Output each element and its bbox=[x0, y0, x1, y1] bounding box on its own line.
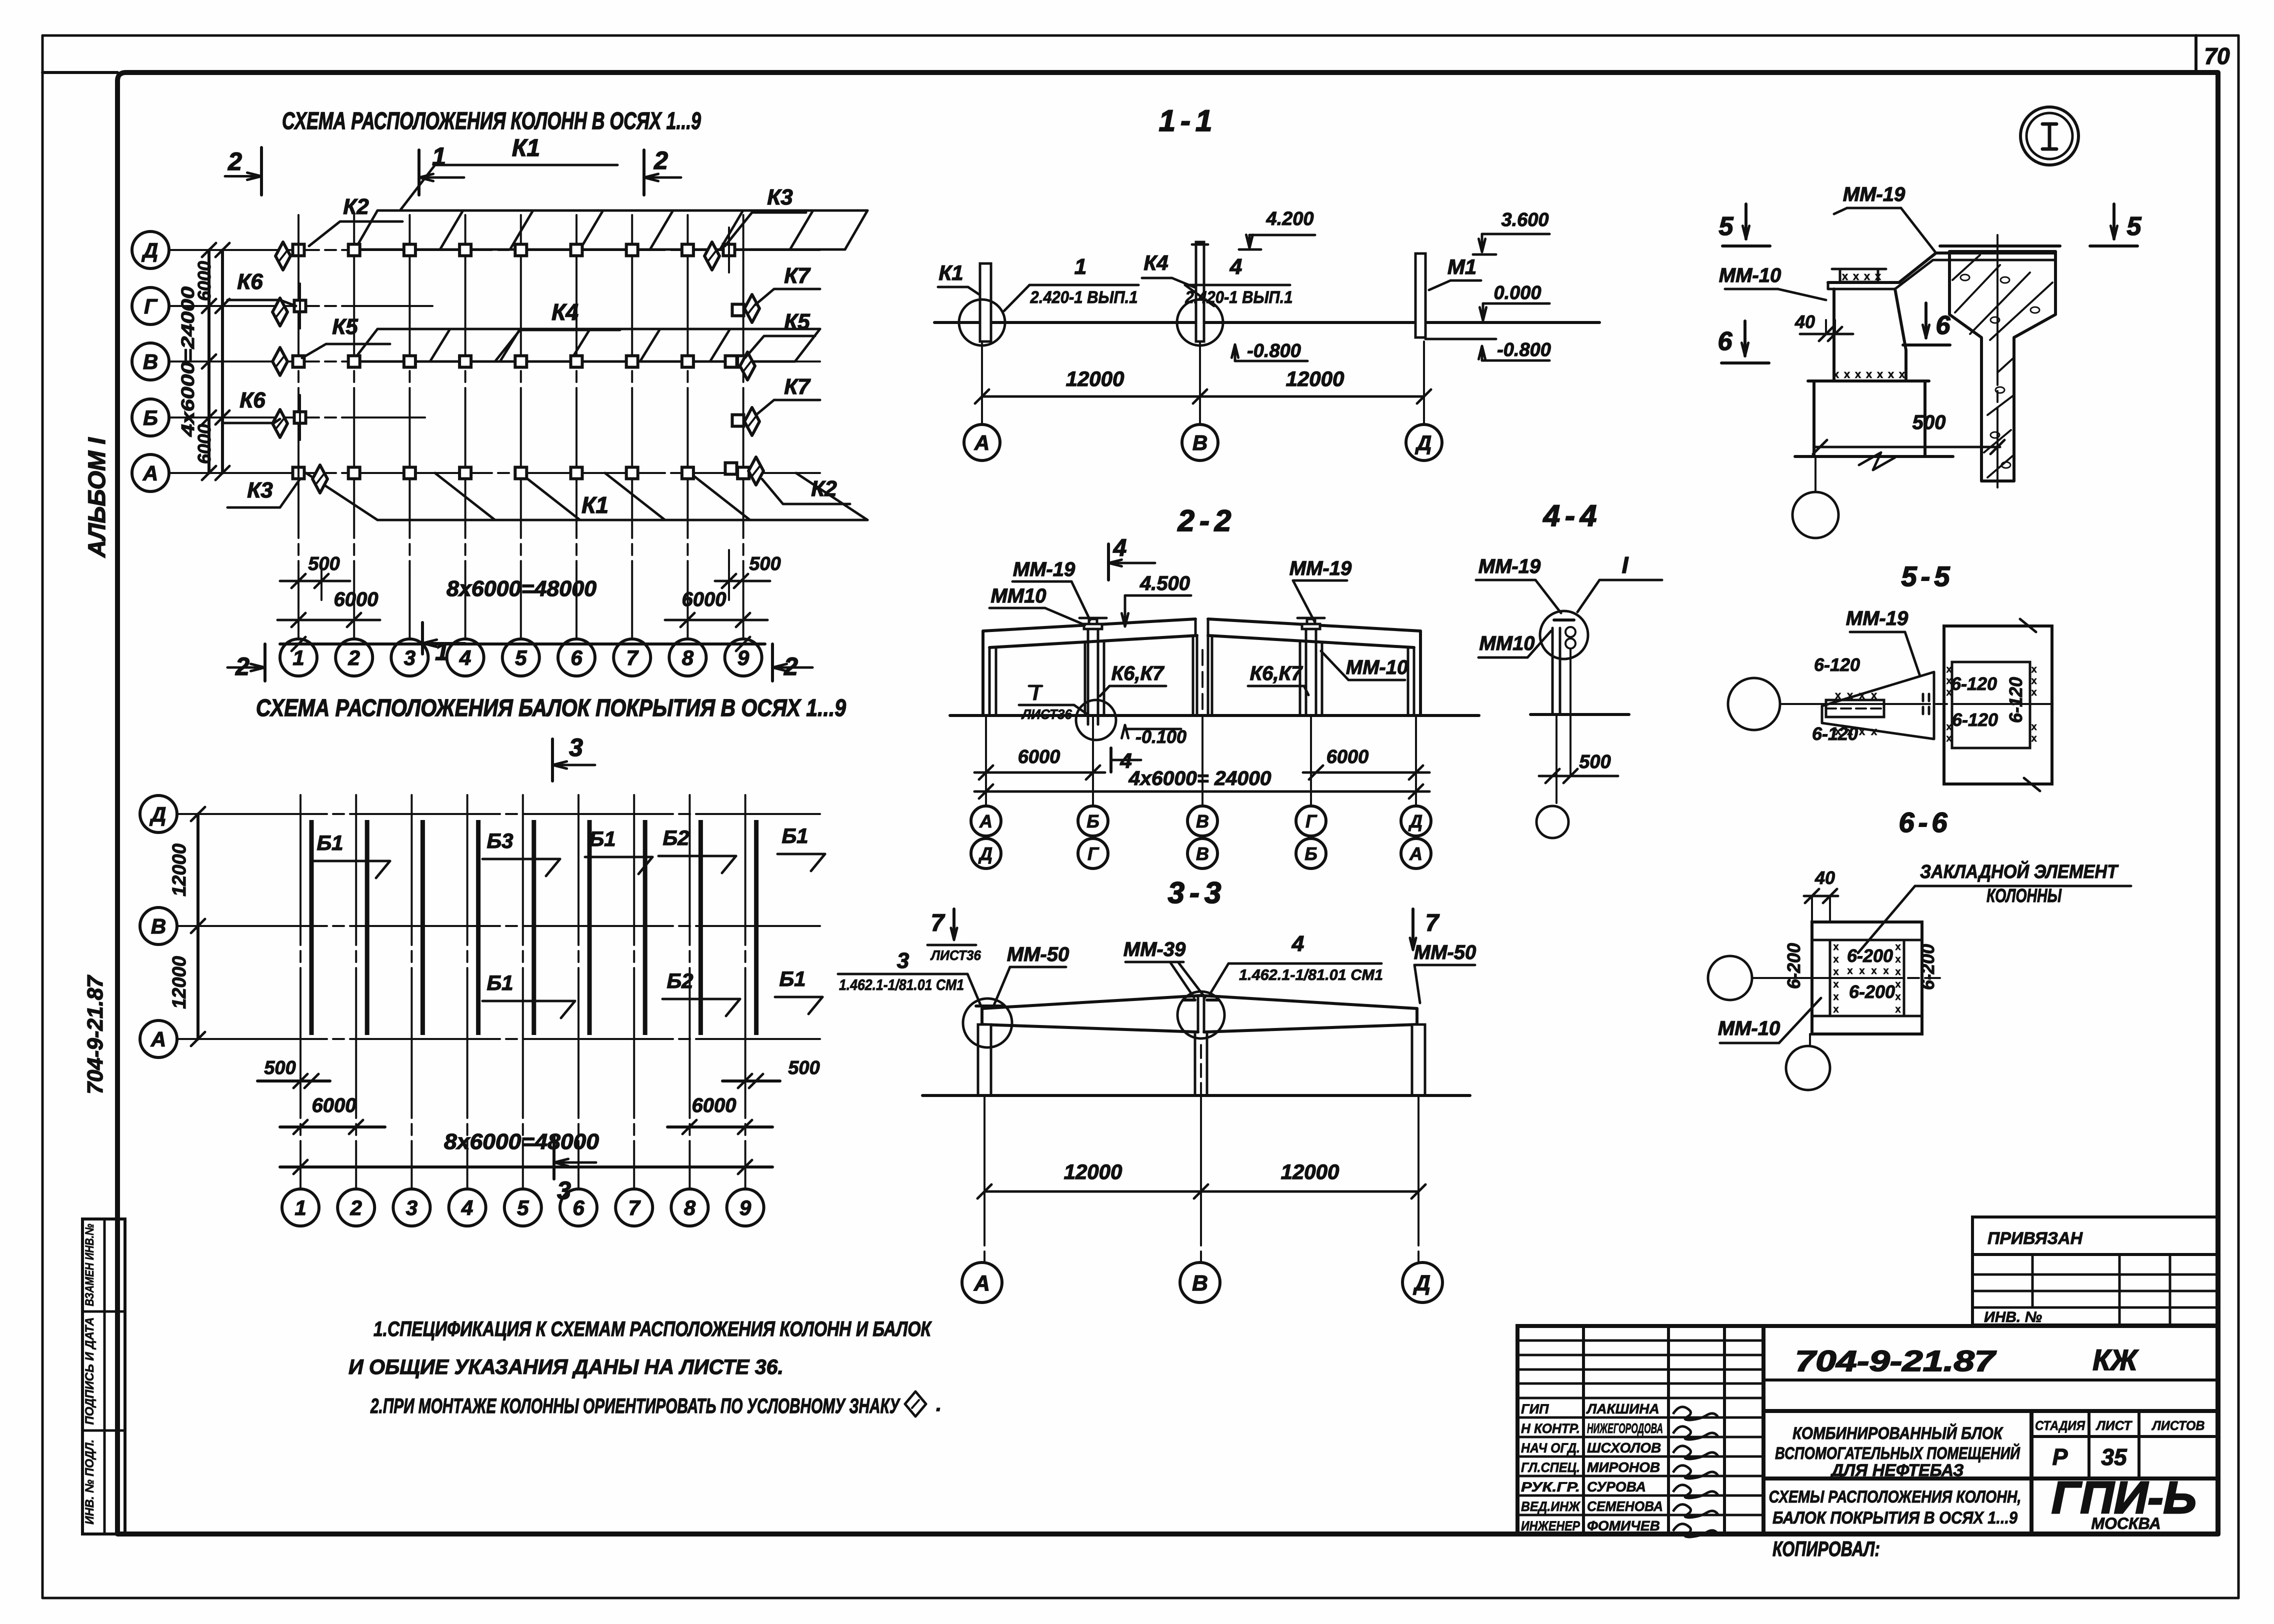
svg-text:В: В bbox=[1192, 431, 1207, 454]
svg-text:Б2: Б2 bbox=[662, 826, 689, 849]
svg-text:1: 1 bbox=[435, 637, 449, 665]
svg-text:500: 500 bbox=[1912, 411, 1946, 433]
svg-text:К5: К5 bbox=[332, 314, 358, 339]
svg-text:А: А bbox=[142, 461, 158, 485]
svg-text:x: x bbox=[1833, 966, 1838, 977]
svg-text:x: x bbox=[1875, 270, 1881, 282]
svg-text:В: В bbox=[1192, 1271, 1208, 1295]
svg-text:7: 7 bbox=[626, 646, 639, 669]
svg-text:x: x bbox=[1946, 733, 1951, 744]
svg-text:ММ-19: ММ-19 bbox=[1289, 557, 1352, 579]
svg-text:ЛИСТ36: ЛИСТ36 bbox=[930, 947, 981, 963]
svg-text:В: В bbox=[1196, 843, 1209, 864]
svg-text:12000: 12000 bbox=[169, 843, 190, 896]
svg-text:500: 500 bbox=[749, 553, 780, 574]
svg-text:ГЛ.СПЕЦ.: ГЛ.СПЕЦ. bbox=[1521, 1460, 1580, 1475]
svg-text:СХЕМЫ РАСПОЛОЖЕНИЯ КОЛОНН,: СХЕМЫ РАСПОЛОЖЕНИЯ КОЛОНН, bbox=[1769, 1487, 2021, 1506]
svg-text:Д: Д bbox=[1412, 1271, 1430, 1295]
svg-text:Б: Б bbox=[1086, 811, 1099, 831]
svg-text:ММ-19: ММ-19 bbox=[1013, 558, 1075, 580]
svg-text:Б1: Б1 bbox=[486, 971, 513, 994]
svg-text:Д: Д bbox=[141, 238, 158, 262]
svg-text:5: 5 bbox=[1719, 212, 1734, 241]
svg-text:СУРОВА: СУРОВА bbox=[1587, 1479, 1646, 1494]
svg-text:x: x bbox=[1888, 368, 1894, 380]
svg-text:К6,К7: К6,К7 bbox=[1250, 662, 1303, 684]
svg-text:x: x bbox=[1895, 966, 1900, 977]
svg-text:x: x bbox=[1847, 965, 1852, 976]
svg-text:ММ-19: ММ-19 bbox=[1478, 555, 1541, 577]
svg-text:СТАДИЯ: СТАДИЯ bbox=[2035, 1418, 2085, 1433]
svg-text:К3: К3 bbox=[247, 478, 273, 502]
svg-text:А: А bbox=[979, 811, 992, 831]
svg-text:3: 3 bbox=[557, 1176, 571, 1204]
svg-text:Д: Д bbox=[978, 843, 992, 864]
svg-text:6-120: 6-120 bbox=[1812, 723, 1858, 744]
svg-text:6-120: 6-120 bbox=[1952, 709, 1998, 730]
svg-text:x: x bbox=[1833, 954, 1838, 965]
svg-text:x: x bbox=[1895, 979, 1900, 990]
svg-text:500: 500 bbox=[788, 1057, 819, 1078]
svg-text:ШСХОЛОВ: ШСХОЛОВ bbox=[1587, 1440, 1661, 1455]
svg-text:ММ-19: ММ-19 bbox=[1846, 607, 1908, 629]
svg-text:2.ПРИ МОНТАЖЕ КОЛОННЫ ОРИЕНТИР: 2.ПРИ МОНТАЖЕ КОЛОННЫ ОРИЕНТИРОВАТЬ ПО У… bbox=[370, 1394, 900, 1417]
svg-text:СЕМЕНОВА: СЕМЕНОВА bbox=[1587, 1498, 1663, 1514]
svg-text:И ОБЩИЕ УКАЗАНИЯ ДАНЫ НА ЛИСТЕ: И ОБЩИЕ УКАЗАНИЯ ДАНЫ НА ЛИСТЕ 36. bbox=[348, 1355, 783, 1378]
svg-text:5: 5 bbox=[517, 1196, 529, 1219]
svg-text:ЛИСТ: ЛИСТ bbox=[2095, 1418, 2132, 1433]
svg-text:ММ-50: ММ-50 bbox=[1007, 943, 1069, 965]
svg-text:x: x bbox=[2031, 687, 2036, 698]
svg-text:6: 6 bbox=[1718, 327, 1733, 356]
svg-text:СХЕМА РАСПОЛОЖЕНИЯ КОЛОНН В ОС: СХЕМА РАСПОЛОЖЕНИЯ КОЛОНН В ОСЯХ 1...9 bbox=[282, 108, 701, 134]
svg-text:ММ10: ММ10 bbox=[1479, 632, 1534, 654]
svg-text:6000: 6000 bbox=[194, 424, 214, 464]
svg-text:М1: М1 bbox=[1447, 255, 1476, 278]
svg-text:НИЖЕГОРОДОВА: НИЖЕГОРОДОВА bbox=[1587, 1420, 1663, 1436]
svg-text:x: x bbox=[1833, 1004, 1838, 1015]
svg-text:500: 500 bbox=[1579, 751, 1610, 772]
svg-text:Б1: Б1 bbox=[779, 967, 805, 990]
svg-text:1.462.1-1/81.01 СМ1: 1.462.1-1/81.01 СМ1 bbox=[1239, 966, 1383, 983]
svg-text:К1: К1 bbox=[512, 135, 540, 161]
svg-text:В: В bbox=[1196, 811, 1209, 831]
svg-text:ВСПОМОГАТЕЛЬНЫХ ПОМЕЩЕНИЙ: ВСПОМОГАТЕЛЬНЫХ ПОМЕЩЕНИЙ bbox=[1775, 1443, 2020, 1463]
svg-text:Г: Г bbox=[1087, 843, 1099, 864]
svg-text:4х6000=24000: 4х6000=24000 bbox=[177, 286, 198, 437]
svg-text:704-9-21.87: 704-9-21.87 bbox=[1795, 1345, 1996, 1377]
svg-text:1: 1 bbox=[294, 1196, 306, 1219]
svg-text:ММ-39: ММ-39 bbox=[1123, 938, 1186, 960]
svg-text:7: 7 bbox=[1425, 910, 1440, 936]
svg-text:К7: К7 bbox=[784, 374, 811, 399]
svg-text:1-1: 1-1 bbox=[1159, 104, 1217, 137]
svg-text:x: x bbox=[1895, 1004, 1900, 1015]
svg-text:4-4: 4-4 bbox=[1543, 499, 1602, 532]
svg-text:x: x bbox=[2031, 733, 2036, 744]
svg-text:x: x bbox=[1853, 270, 1859, 282]
svg-text:4х6000= 24000: 4х6000= 24000 bbox=[1128, 767, 1271, 789]
svg-text:-0.800: -0.800 bbox=[1247, 340, 1301, 361]
svg-text:ДЛЯ НЕФТЕБАЗ: ДЛЯ НЕФТЕБАЗ bbox=[1829, 1461, 1963, 1480]
svg-text:I: I bbox=[1622, 552, 1629, 578]
svg-text:2: 2 bbox=[227, 147, 242, 175]
svg-text:6000: 6000 bbox=[194, 261, 214, 301]
svg-text:А: А bbox=[973, 1271, 990, 1295]
svg-text:ИНВ. №: ИНВ. № bbox=[1984, 1309, 2042, 1325]
svg-text:НАЧ ОГД.: НАЧ ОГД. bbox=[1521, 1440, 1580, 1455]
svg-text:ГИП: ГИП bbox=[1521, 1401, 1549, 1416]
svg-text:2.420-1 ВЫП.1: 2.420-1 ВЫП.1 bbox=[1185, 288, 1293, 307]
svg-text:СХЕМА РАСПОЛОЖЕНИЯ БАЛОК ПОКРЫ: СХЕМА РАСПОЛОЖЕНИЯ БАЛОК ПОКРЫТИЯ В ОСЯХ… bbox=[256, 695, 846, 721]
svg-text:x: x bbox=[1859, 689, 1865, 701]
svg-text:6-200: 6-200 bbox=[1783, 943, 1804, 989]
svg-text:3: 3 bbox=[404, 646, 415, 669]
svg-text:ПОДПИСЬ И ДАТА: ПОДПИСЬ И ДАТА bbox=[83, 1317, 96, 1425]
svg-text:0.000: 0.000 bbox=[1493, 282, 1541, 303]
svg-text:x: x bbox=[2031, 675, 2036, 686]
svg-text:7: 7 bbox=[628, 1196, 641, 1219]
svg-text:6-120: 6-120 bbox=[1951, 673, 1997, 694]
svg-text:7: 7 bbox=[931, 910, 945, 936]
svg-text:I: I bbox=[1033, 683, 1039, 704]
svg-text:ИНЖЕНЕР: ИНЖЕНЕР bbox=[1521, 1518, 1580, 1533]
svg-text:x: x bbox=[1844, 368, 1850, 380]
svg-text:x: x bbox=[1833, 979, 1838, 990]
svg-text:6-200: 6-200 bbox=[1849, 981, 1895, 1002]
svg-text:4: 4 bbox=[459, 646, 471, 669]
svg-text:x: x bbox=[1899, 368, 1905, 380]
svg-text:ЛАКШИНА: ЛАКШИНА bbox=[1586, 1401, 1659, 1416]
svg-text:6000: 6000 bbox=[334, 588, 378, 610]
svg-text:x: x bbox=[1859, 965, 1864, 976]
svg-text:4: 4 bbox=[461, 1196, 473, 1219]
svg-text:-0.100: -0.100 bbox=[1135, 726, 1186, 747]
svg-text:КЖ: КЖ bbox=[2092, 1344, 2139, 1376]
svg-text:x: x bbox=[1946, 721, 1951, 732]
svg-text:35: 35 bbox=[2101, 1444, 2127, 1470]
svg-text:Б: Б bbox=[143, 406, 158, 429]
svg-text:x: x bbox=[1871, 689, 1877, 701]
svg-text:9: 9 bbox=[737, 646, 749, 669]
svg-text:x: x bbox=[1833, 368, 1839, 380]
svg-text:2.420-1 ВЫП.1: 2.420-1 ВЫП.1 bbox=[1030, 288, 1138, 307]
svg-text:x: x bbox=[1883, 965, 1888, 976]
svg-text:8х6000=48000: 8х6000=48000 bbox=[444, 1129, 599, 1154]
svg-text:6: 6 bbox=[572, 1196, 584, 1219]
svg-text:6000: 6000 bbox=[682, 588, 726, 610]
svg-text:1.462.1-1/81.01 СМ1: 1.462.1-1/81.01 СМ1 bbox=[839, 976, 964, 993]
svg-text:12000: 12000 bbox=[1286, 367, 1344, 390]
svg-text:x: x bbox=[1866, 368, 1872, 380]
svg-text:1: 1 bbox=[432, 142, 446, 170]
svg-text:ПРИВЯЗАН: ПРИВЯЗАН bbox=[1987, 1229, 2083, 1248]
svg-text:5: 5 bbox=[515, 646, 527, 669]
svg-text:x: x bbox=[1895, 991, 1900, 1002]
svg-text:x: x bbox=[1859, 725, 1865, 737]
svg-text:70: 70 bbox=[2204, 43, 2230, 69]
svg-text:ММ-19: ММ-19 bbox=[1843, 183, 1905, 205]
svg-text:x: x bbox=[1855, 368, 1861, 380]
svg-text:ИНВ. № ПОДЛ.: ИНВ. № ПОДЛ. bbox=[83, 1439, 96, 1524]
svg-text:6-6: 6-6 bbox=[1899, 806, 1951, 838]
svg-text:ММ-10: ММ-10 bbox=[1719, 264, 1781, 286]
svg-text:Б1: Б1 bbox=[781, 824, 808, 847]
svg-text:500: 500 bbox=[308, 553, 339, 574]
svg-text:x: x bbox=[1877, 368, 1883, 380]
svg-text:К1: К1 bbox=[938, 261, 963, 284]
svg-text:4.200: 4.200 bbox=[1265, 208, 1313, 229]
svg-text:ММ-10: ММ-10 bbox=[1346, 656, 1408, 678]
svg-text:К5: К5 bbox=[784, 309, 810, 334]
svg-text:В: В bbox=[151, 914, 166, 938]
svg-text:x: x bbox=[1833, 941, 1838, 952]
svg-text:Б1: Б1 bbox=[316, 831, 343, 854]
svg-text:ФОМИЧЕВ: ФОМИЧЕВ bbox=[1587, 1518, 1660, 1533]
svg-text:4: 4 bbox=[1113, 535, 1127, 561]
svg-text:1.СПЕЦИФИКАЦИЯ К СХЕМАМ РАСПОЛ: 1.СПЕЦИФИКАЦИЯ К СХЕМАМ РАСПОЛОЖЕНИЯ КОЛ… bbox=[373, 1317, 932, 1340]
svg-text:А: А bbox=[974, 431, 989, 454]
svg-text:КОПИРОВАЛ:: КОПИРОВАЛ: bbox=[1772, 1537, 1880, 1560]
svg-text:40: 40 bbox=[1794, 311, 1815, 332]
svg-text:2-2: 2-2 bbox=[1177, 504, 1236, 537]
svg-text:К6,К7: К6,К7 bbox=[1111, 662, 1165, 684]
svg-text:Б1: Б1 bbox=[589, 827, 615, 850]
svg-text:x: x bbox=[1871, 725, 1877, 737]
svg-text:6000: 6000 bbox=[312, 1094, 356, 1116]
svg-text:500: 500 bbox=[264, 1057, 295, 1078]
svg-text:8: 8 bbox=[682, 646, 694, 669]
svg-text:6000: 6000 bbox=[692, 1094, 736, 1116]
svg-text:Г: Г bbox=[1305, 811, 1317, 831]
svg-text:Д: Д bbox=[149, 802, 166, 826]
svg-text:6-200: 6-200 bbox=[1917, 944, 1938, 990]
svg-text:4: 4 bbox=[1229, 254, 1242, 279]
svg-text:Д: Д bbox=[1408, 811, 1422, 831]
svg-text:ЗАКЛАДНОЙ ЭЛЕМЕНТ: ЗАКЛАДНОЙ ЭЛЕМЕНТ bbox=[1920, 860, 2119, 882]
svg-text:ВЕД.ИНЖ: ВЕД.ИНЖ bbox=[1521, 1499, 1581, 1514]
svg-text:6-200: 6-200 bbox=[1847, 945, 1893, 966]
svg-text:К1: К1 bbox=[581, 492, 608, 518]
svg-text:6000: 6000 bbox=[1018, 746, 1060, 767]
svg-text:К4: К4 bbox=[551, 299, 578, 325]
svg-text:ЛИСТОВ: ЛИСТОВ bbox=[2151, 1418, 2205, 1433]
svg-text:x: x bbox=[1842, 270, 1848, 282]
svg-text:x: x bbox=[1847, 689, 1853, 701]
svg-text:12000: 12000 bbox=[1066, 367, 1124, 390]
svg-text:А: А bbox=[150, 1027, 166, 1051]
svg-text:x: x bbox=[1835, 689, 1841, 701]
svg-text:Б3: Б3 bbox=[486, 829, 513, 852]
svg-text:К7: К7 bbox=[784, 263, 811, 288]
svg-text:6-120: 6-120 bbox=[1814, 654, 1860, 675]
svg-text:ММ-10: ММ-10 bbox=[1718, 1017, 1780, 1039]
svg-text:2: 2 bbox=[348, 646, 360, 669]
svg-text:4: 4 bbox=[1291, 931, 1304, 956]
svg-text:АЛЬБОМ I: АЛЬБОМ I bbox=[84, 437, 110, 558]
svg-text:Н КОНТР.: Н КОНТР. bbox=[1521, 1421, 1580, 1436]
svg-text:3: 3 bbox=[897, 948, 909, 973]
svg-text:12000: 12000 bbox=[1064, 1160, 1122, 1183]
svg-text:Б2: Б2 bbox=[666, 969, 693, 992]
svg-text:Б: Б bbox=[1304, 843, 1317, 864]
svg-text:РУК.ГР.: РУК.ГР. bbox=[1521, 1479, 1580, 1494]
svg-text:x: x bbox=[1895, 941, 1900, 952]
svg-text:2: 2 bbox=[350, 1196, 362, 1219]
svg-text:8: 8 bbox=[684, 1196, 696, 1219]
svg-text:В: В bbox=[143, 350, 158, 373]
svg-text:9: 9 bbox=[739, 1196, 751, 1219]
svg-text:12000: 12000 bbox=[1281, 1160, 1339, 1183]
svg-text:А: А bbox=[1409, 843, 1422, 864]
svg-text:Р: Р bbox=[2052, 1444, 2068, 1470]
svg-text:ММ-50: ММ-50 bbox=[1414, 941, 1476, 963]
svg-text:.: . bbox=[936, 1393, 941, 1415]
svg-text:3-3: 3-3 bbox=[1168, 876, 1226, 909]
svg-text:3: 3 bbox=[406, 1196, 417, 1219]
svg-text:БАЛОК ПОКРЫТИЯ В ОСЯХ 1...9: БАЛОК ПОКРЫТИЯ В ОСЯХ 1...9 bbox=[1772, 1508, 2017, 1527]
svg-text:Д: Д bbox=[1415, 431, 1431, 454]
svg-text:ВЗАМЕН ИНВ.№: ВЗАМЕН ИНВ.№ bbox=[83, 1223, 96, 1306]
svg-text:К6: К6 bbox=[239, 388, 265, 412]
svg-text:6-120: 6-120 bbox=[2005, 677, 2026, 723]
svg-text:3: 3 bbox=[569, 733, 583, 761]
svg-text:x: x bbox=[1864, 270, 1870, 282]
svg-text:6: 6 bbox=[570, 646, 582, 669]
svg-text:x: x bbox=[1871, 965, 1876, 976]
svg-text:К2: К2 bbox=[811, 476, 837, 501]
svg-text:3.600: 3.600 bbox=[1501, 209, 1548, 230]
svg-text:МОСКВА: МОСКВА bbox=[2091, 1514, 2160, 1532]
svg-text:Г: Г bbox=[144, 294, 158, 318]
svg-text:40: 40 bbox=[1814, 867, 1835, 888]
svg-text:12000: 12000 bbox=[169, 956, 190, 1009]
svg-text:6000: 6000 bbox=[1326, 746, 1369, 767]
svg-text:ММ10: ММ10 bbox=[990, 585, 1046, 607]
svg-text:x: x bbox=[2031, 664, 2036, 675]
svg-text:КОМБИНИРОВАННЫЙ БЛОК: КОМБИНИРОВАННЫЙ БЛОК bbox=[1792, 1423, 2003, 1443]
svg-text:МИРОНОВ: МИРОНОВ bbox=[1587, 1459, 1660, 1475]
svg-text:8х6000=48000: 8х6000=48000 bbox=[446, 576, 597, 601]
svg-text:К4: К4 bbox=[1143, 251, 1168, 274]
svg-text:-0.800: -0.800 bbox=[1497, 339, 1551, 360]
svg-text:1: 1 bbox=[1074, 254, 1086, 279]
svg-text:x: x bbox=[1833, 991, 1838, 1002]
svg-text:5: 5 bbox=[2127, 212, 2142, 241]
svg-text:5-5: 5-5 bbox=[1901, 560, 1954, 592]
svg-text:x: x bbox=[1895, 954, 1900, 965]
svg-text:К3: К3 bbox=[767, 185, 793, 209]
svg-text:ЛИСТ36: ЛИСТ36 bbox=[1021, 706, 1072, 722]
svg-text:КОЛОННЫ: КОЛОННЫ bbox=[1986, 885, 2062, 906]
svg-text:2: 2 bbox=[653, 146, 668, 174]
svg-text:704-9-21.87: 704-9-21.87 bbox=[83, 974, 107, 1094]
svg-text:x: x bbox=[2031, 721, 2036, 732]
svg-text:4.500: 4.500 bbox=[1139, 572, 1190, 594]
svg-text:К2: К2 bbox=[343, 194, 369, 219]
svg-text:К6: К6 bbox=[237, 269, 263, 294]
